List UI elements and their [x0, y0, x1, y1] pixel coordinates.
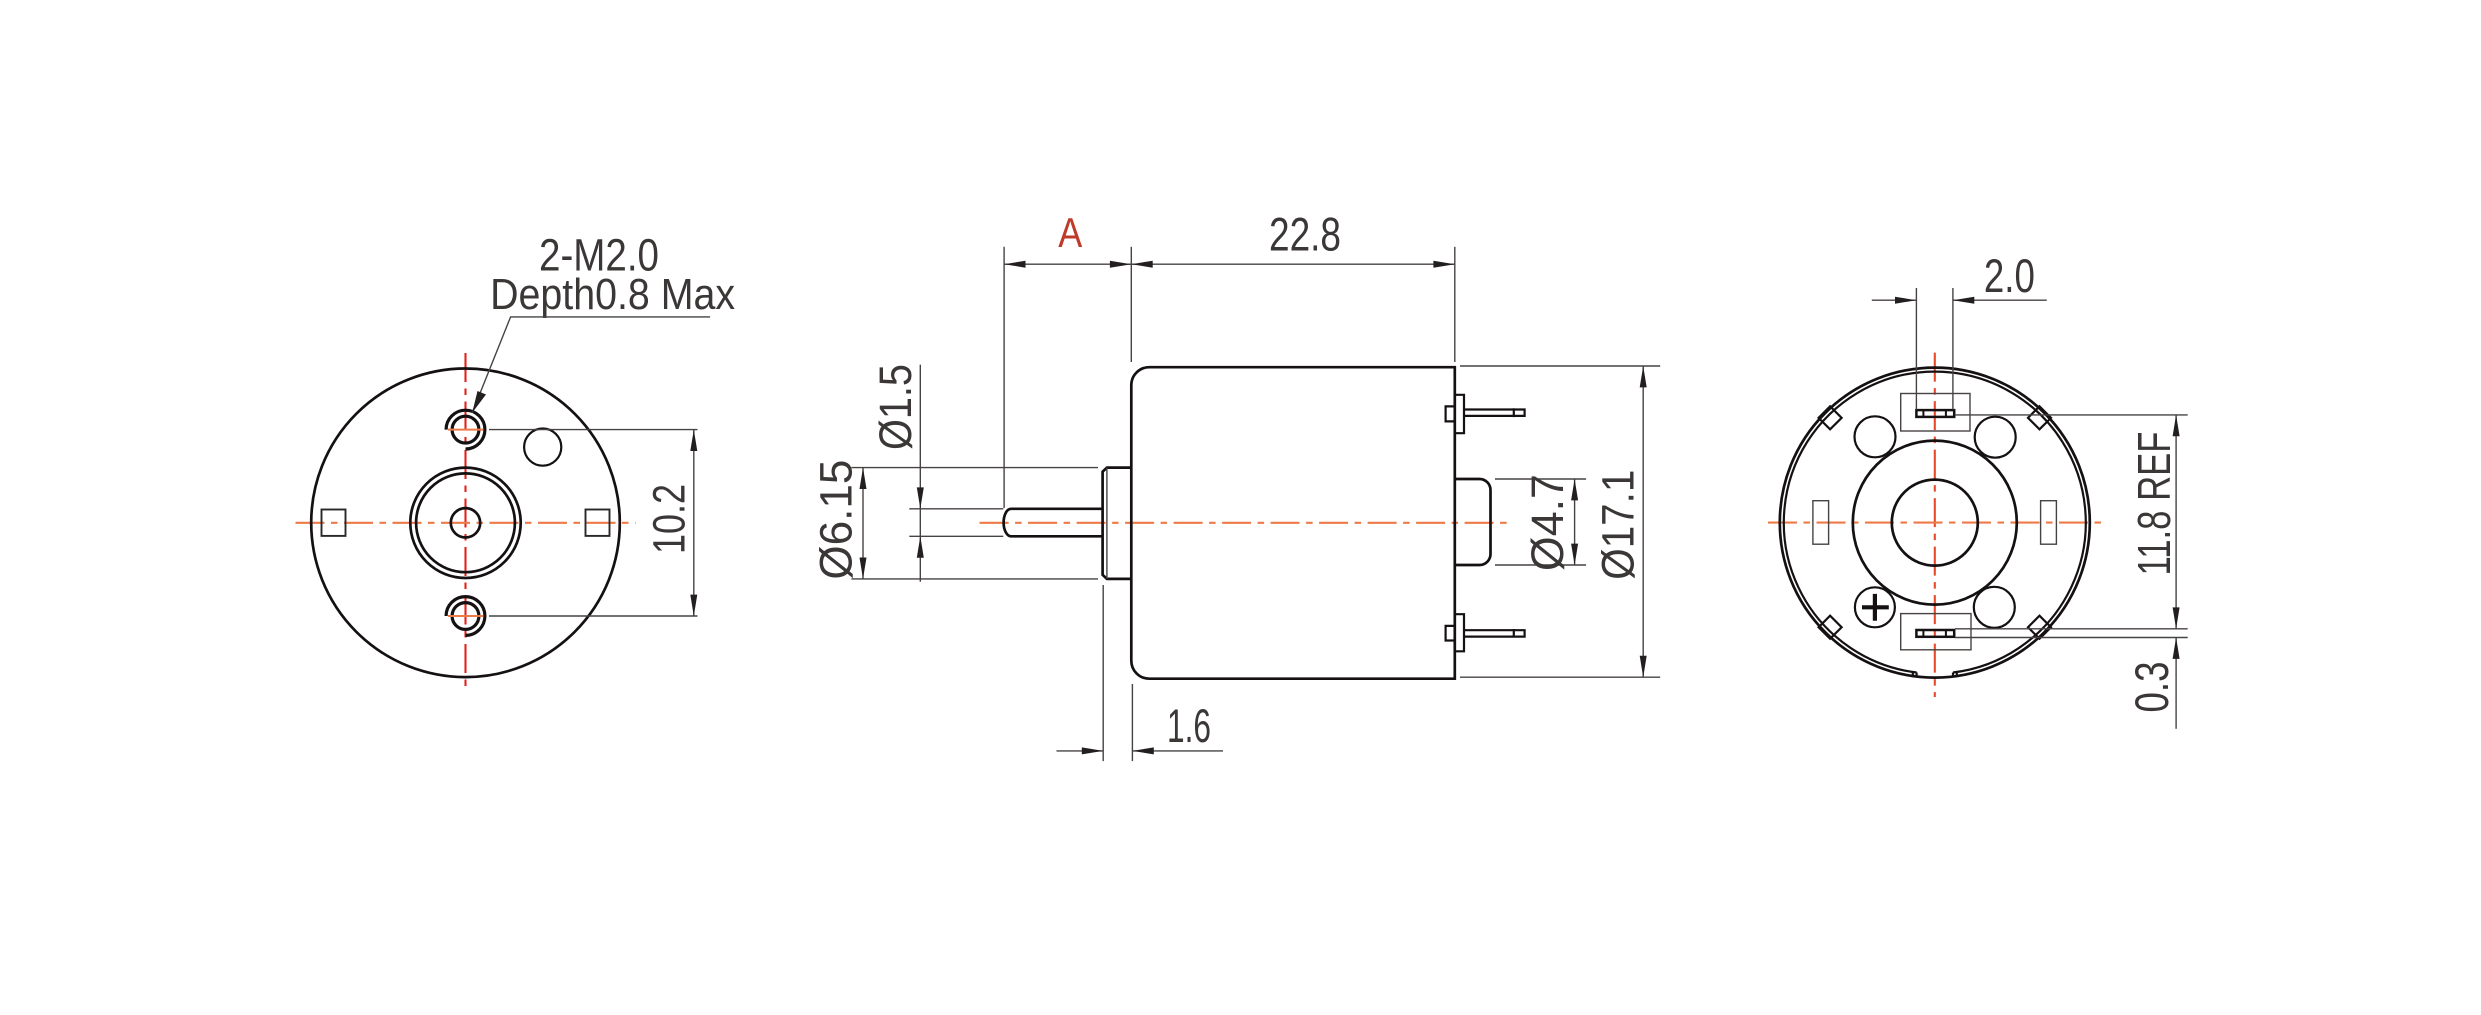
rear view left side slot [1813, 501, 1829, 545]
dim Ø6.15 line [862, 468, 864, 579]
polarity plus mark cross [1862, 594, 1889, 621]
rear view outer housing circle [1780, 368, 2090, 678]
mounting hole M2.0 top: centerline tick [448, 429, 484, 431]
dim Ø17.1 arrow down [1640, 656, 1647, 677]
dim 1.6 line right segment [1132, 750, 1223, 752]
dim Ø17.1 arrow up [1640, 366, 1647, 387]
front view left key square [322, 510, 346, 536]
front view vertical centerline (red) [464, 353, 466, 692]
top terminal pin [1464, 408, 1525, 417]
dim Ø17.1 extension line bottom [1460, 676, 1660, 678]
dim Ø1.5 line [919, 365, 921, 582]
dim Ø4.7 arrow down [1571, 544, 1578, 565]
front view bearing boss inner circle [416, 473, 515, 572]
dim Ø1.5 arrow down (above shaft) [917, 487, 924, 508]
dimension 10.2 extension line bottom [489, 615, 698, 617]
svg-text:22.8: 22.8 [1269, 208, 1341, 261]
label underline [472, 317, 710, 413]
mounting hole M2.0 top: thread arc [446, 410, 485, 449]
bearing boss chamfer inner line [1106, 468, 1108, 579]
dim 22.8 arrow left [1131, 261, 1152, 268]
side view horizontal centerline (orange) [980, 522, 1509, 524]
rear vent hole top-right [1975, 417, 2016, 458]
svg-text:Ø1.5: Ø1.5 [870, 364, 921, 450]
rear view center hole circle [1892, 480, 1978, 566]
dim 1.6 line left segment [1057, 750, 1104, 752]
dim A arrow left [1004, 261, 1025, 268]
dim Ø6.15 arrow up [860, 468, 867, 489]
dim 0.3 extension line (slot bottom) [1955, 637, 2188, 639]
dim Ø4.7 arrow up [1571, 479, 1578, 500]
dim 2.0 arrow right-pointing [1895, 297, 1916, 304]
dim Ø1.5 extension line bottom [909, 535, 1003, 537]
dim 22.8 line [1131, 263, 1455, 265]
front view outer housing circle [311, 369, 620, 678]
front view right key square [586, 510, 610, 536]
dim 2.0 line right segment [1953, 299, 2047, 301]
motor shaft [1004, 509, 1103, 537]
polarity plus mark circle [1855, 587, 1895, 627]
rim notch bottom-left (rotated square) [1819, 616, 1842, 639]
dim 0.3 line [2175, 638, 2177, 729]
bottom terminal block [1901, 614, 1971, 650]
rear view right side slot [2041, 501, 2057, 545]
rear view bottom gap tick right [1953, 672, 1957, 678]
dim 2.0 arrow left-pointing [1953, 297, 1974, 304]
rear view bottom gap tick left [1913, 672, 1917, 678]
dim Ø1.5 extension line top [909, 508, 1003, 510]
rear view rotor circle [1853, 441, 2017, 605]
dimension 10.2 arrow down [690, 595, 697, 616]
mounting hole M2.0 top: tapped hole circle [452, 416, 479, 443]
front view vent hole (upper right) [524, 429, 561, 466]
dim Ø4.7 extension line top [1495, 478, 1586, 480]
rear view horizontal centerline [1768, 522, 2102, 524]
motor body outline [1131, 367, 1455, 679]
rear vent hole bottom-right [1974, 587, 2015, 628]
dim Ø4.7 extension line bottom [1495, 564, 1586, 566]
svg-text:0.3: 0.3 [2125, 662, 2178, 713]
front view bearing boss outer circle [410, 468, 520, 578]
svg-text:Depth0.8 Max: Depth0.8 Max [490, 270, 735, 319]
svg-text:10.2: 10.2 [644, 484, 695, 554]
svg-text:Ø6.15: Ø6.15 [811, 460, 862, 580]
bearing boss outline [1103, 468, 1131, 579]
dim Ø17.1 line [1642, 366, 1644, 677]
dim 2.0 extension line right [1952, 288, 1954, 410]
rim notch top-left (rotated square) [1819, 406, 1842, 429]
label leader arrowhead [472, 391, 486, 413]
dim Ø6.15 extension line bottom [851, 578, 1098, 580]
top terminal slot [1916, 410, 1954, 417]
dim 22.8 arrow right [1433, 261, 1454, 268]
dim 22.8 extension line right (body rear) [1454, 247, 1456, 362]
svg-text:1.6: 1.6 [1167, 699, 1211, 752]
dim 11.8 REF line [2175, 415, 2177, 629]
dim Ø4.7 line [1574, 479, 1576, 565]
top terminal tab [1455, 395, 1464, 433]
mounting hole M2.0 bottom: centerline tick [448, 615, 484, 617]
dim A extension line (shaft tip) [1003, 247, 1005, 508]
dim 11.8 arrow up [2173, 415, 2180, 436]
svg-text:2.0: 2.0 [1984, 249, 2035, 302]
rim notch top-right (rotated square) [2028, 406, 2051, 429]
dimension 10.2 line [693, 430, 695, 616]
dim 11.8 REF extension line top [1955, 414, 2188, 416]
top terminal notch on body [1446, 406, 1455, 421]
svg-text:A: A [1058, 209, 1082, 256]
rear view inner ring circle (with bottom gap) [1784, 372, 2086, 673]
bottom terminal notch on body [1446, 626, 1455, 641]
dim Ø6.15 arrow down [860, 558, 867, 579]
dim Ø1.5 arrow up (below shaft) [917, 536, 924, 557]
dim 11.8 REF extension line bottom (slot top) [1955, 628, 2188, 630]
dim A arrow right [1110, 261, 1131, 268]
top terminal block [1901, 394, 1970, 432]
svg-text:11.8 REF: 11.8 REF [2128, 432, 2180, 576]
bottom terminal pin [1464, 629, 1525, 638]
dim 2.0 extension line left [1915, 288, 1917, 410]
dim 1.6 arrow left-pointing [1132, 747, 1153, 754]
rim notch bottom-right (rotated square) [2028, 616, 2051, 639]
dim Ø17.1 extension line top [1460, 365, 1660, 367]
rear vent hole top-left [1855, 416, 1896, 457]
rear end cap bump (Ø4.7) [1455, 479, 1491, 565]
dim 0.3 arrow up-pointing [2173, 638, 2180, 659]
dim 1.6 extension line right (body) [1131, 684, 1133, 761]
dimension 10.2 extension line top [489, 429, 698, 431]
dim 1.6 extension line left (boss) [1102, 585, 1104, 761]
dim A line [1004, 263, 1131, 265]
dim Ø6.15 extension line top [851, 467, 1098, 469]
bottom terminal tab [1455, 614, 1464, 651]
svg-text:Ø4.7: Ø4.7 [1522, 474, 1573, 571]
mounting hole M2.0 bottom: thread arc [446, 597, 485, 636]
dim 1.6 arrow right-pointing [1082, 747, 1103, 754]
front view horizontal centerline (orange) [296, 522, 636, 524]
dimension 10.2 arrow up [690, 430, 697, 451]
svg-text:Ø17.1: Ø17.1 [1593, 470, 1644, 580]
dim 11.8 arrow down [2173, 607, 2180, 628]
bottom terminal slot [1916, 630, 1954, 637]
rear view vertical centerline [1934, 353, 1936, 697]
front view shaft circle [451, 508, 480, 537]
mounting hole M2.0 bottom: tapped hole circle [452, 603, 479, 630]
dim 2.0 line left segment [1872, 299, 1917, 301]
dim 22.8 extension line left (body front) [1130, 247, 1132, 362]
